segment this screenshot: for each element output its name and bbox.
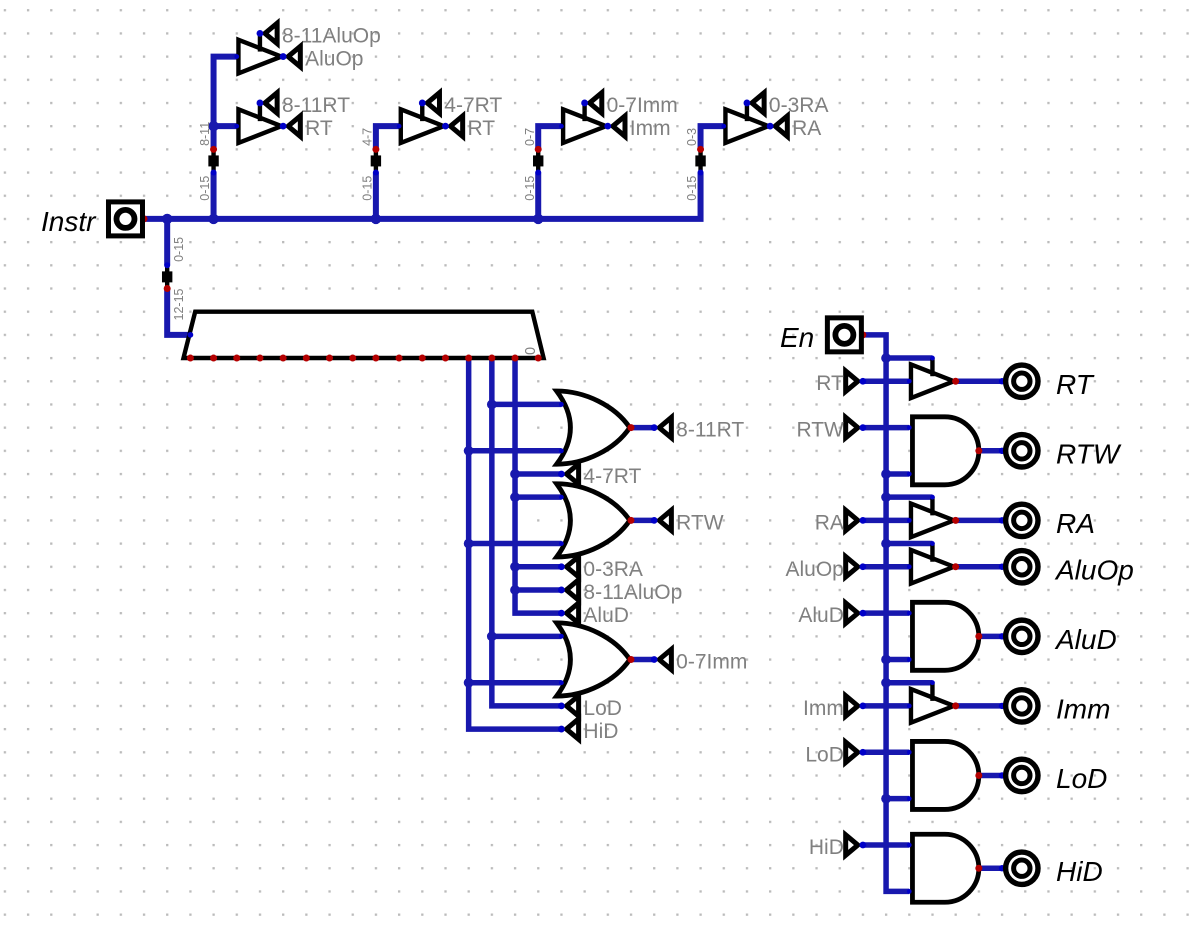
pin dot	[999, 378, 1005, 384]
output pin RTW	[1006, 435, 1038, 467]
output pin AluOp	[1006, 551, 1038, 583]
svg-text:LoD: LoD	[805, 743, 844, 766]
pin dot	[907, 564, 912, 569]
red dot Instr pin out	[140, 215, 147, 222]
driver U4 (AluOp)	[911, 544, 954, 584]
wire tunnel AluOp to U4	[863, 564, 909, 570]
junction out1/8-11AluOp	[510, 585, 520, 595]
pin dot	[559, 634, 564, 639]
splitter S4	[695, 149, 705, 172]
driver U1 (RT)	[911, 358, 954, 398]
red dot OR2 out	[627, 517, 634, 524]
wire En to U3 enable	[886, 494, 932, 500]
splitter pin dot	[164, 262, 170, 268]
tunnel 0-7Imm (OR3 out)	[659, 649, 671, 669]
junction En rail/U2	[881, 469, 891, 479]
wire 8-11 splitter to drivers	[214, 57, 237, 150]
wire OR2 output	[631, 518, 654, 524]
splitter pin dot	[698, 170, 704, 176]
red dot decoder output 14	[210, 355, 217, 362]
red dot OR3 out	[627, 656, 634, 663]
red dot U4 out	[952, 563, 959, 570]
tunnel AluOp (net load)	[846, 557, 858, 577]
driver D2 (RT 8-11)	[238, 103, 281, 143]
svg-text:HiD: HiD	[809, 836, 844, 859]
svg-text:AluD: AluD	[583, 604, 629, 627]
tunnel HiD (net source)	[566, 719, 578, 739]
svg-text:AluOp: AluOp	[1054, 554, 1134, 585]
driver D4 (Imm)	[563, 103, 606, 143]
tunnel pin dot	[257, 100, 264, 107]
junction En rail/U4 en	[881, 539, 891, 549]
wire OR1 input B	[469, 448, 562, 454]
svg-text:Imm: Imm	[630, 117, 671, 140]
junction En rail/U3 en	[881, 492, 891, 502]
red dot S2 out	[372, 146, 379, 153]
tunnel AluD (net load)	[846, 603, 858, 623]
svg-text:8-11AluOp: 8-11AluOp	[583, 581, 682, 604]
red dot U8 out	[975, 865, 982, 872]
svg-text:0-15: 0-15	[198, 176, 212, 201]
red dot U2 out	[975, 447, 982, 454]
svg-text:Imm: Imm	[803, 697, 844, 720]
red dot decoder output 9	[326, 355, 333, 362]
tunnel LoD (net load)	[846, 742, 858, 762]
wire 0-3 splitter to driver	[701, 126, 724, 149]
svg-text:0: 0	[523, 347, 539, 355]
tunnel pin dot	[581, 100, 588, 107]
wire U5 to pin AluD	[979, 634, 1002, 640]
wire decoder out1 column	[515, 358, 561, 613]
tunnel 8-11RT (D2 enable)	[265, 93, 277, 113]
svg-text:AluOp: AluOp	[786, 558, 844, 581]
wire Instr bus	[144, 173, 701, 219]
svg-text:RTW: RTW	[796, 419, 844, 442]
tunnel LoD (net source)	[566, 696, 578, 716]
splitter pin dot	[535, 170, 541, 176]
tunnel pin dot	[558, 726, 565, 733]
svg-text:LoD: LoD	[583, 697, 622, 720]
wire U1 to pin RT	[956, 378, 1002, 384]
tunnel pin dot	[558, 610, 565, 617]
wire to tunnel 4-7RT	[515, 471, 561, 477]
svg-text:AluD: AluD	[1054, 624, 1117, 655]
wire 4-7 splitter to driver	[376, 126, 399, 149]
tunnel 8-11AluOp (D1 enable)	[265, 23, 277, 43]
wire OR3 input A	[492, 634, 562, 640]
svg-text:Instr: Instr	[41, 206, 97, 237]
tunnel 0-3RA (D5 enable)	[752, 93, 764, 113]
svg-text:0-15: 0-15	[172, 237, 186, 262]
red dot En pin out	[859, 331, 866, 338]
tunnel pin dot	[859, 517, 866, 524]
and-gate U5 (AluD)	[912, 602, 978, 670]
tunnel pin dot	[651, 424, 658, 431]
red dot decoder output 13	[233, 355, 240, 362]
red dot U6 out	[952, 702, 959, 709]
wire En to U4 enable	[886, 541, 932, 547]
wire bus riser col 8-11	[211, 173, 217, 219]
tunnel 4-7RT (D3 enable)	[427, 93, 439, 113]
pin dot	[721, 124, 726, 129]
wire U3 to pin RA	[956, 518, 1002, 524]
red dot U7 out	[975, 772, 982, 779]
pin dot	[907, 843, 912, 848]
svg-text:AluOp: AluOp	[305, 48, 363, 71]
decoder select pin dot	[187, 332, 193, 338]
red dot S4 out	[697, 146, 704, 153]
junction out3/OR2	[464, 539, 474, 549]
junction En rail/U7	[881, 794, 891, 804]
wire OR1 input A	[492, 402, 562, 408]
pin dot	[907, 472, 912, 477]
splitter S2	[371, 149, 381, 172]
pin dot	[930, 356, 935, 361]
pin dot	[234, 54, 239, 59]
tunnel RTW (net load)	[846, 417, 858, 437]
driver D3 (RT 4-7)	[401, 103, 444, 143]
junction out3/OR1	[464, 446, 474, 456]
tunnel pin dot	[280, 123, 287, 130]
or-gate OR3	[557, 623, 630, 696]
wire tunnel RA to U3	[863, 518, 909, 524]
wire 12-15 splitter to decoder select	[167, 288, 190, 334]
svg-text:RT: RT	[305, 117, 333, 140]
junction En rail/U5	[881, 655, 891, 665]
pin dot	[999, 865, 1005, 871]
red dot decoder output 7	[372, 355, 379, 362]
wire bus riser col 0-7	[535, 173, 541, 219]
tunnel pin dot	[419, 100, 426, 107]
output pin LoD	[1006, 759, 1038, 791]
splitter S3	[533, 149, 543, 172]
driver U3 (RA)	[911, 497, 954, 537]
wire En to U5 lower input	[886, 657, 909, 663]
wire bus riser col 4-7	[373, 173, 379, 219]
pin dot	[907, 425, 912, 430]
splitter S1	[208, 149, 218, 172]
pin dot	[559, 448, 564, 453]
pin dot	[930, 680, 935, 685]
pin dot	[930, 541, 935, 546]
red dot U3 out	[952, 517, 959, 524]
and-gate U2 (RTW)	[912, 417, 978, 485]
svg-text:0-7Imm: 0-7Imm	[607, 94, 678, 117]
tunnel pin dot	[558, 471, 565, 478]
svg-text:4-7: 4-7	[360, 128, 374, 146]
splitter S5	[162, 265, 172, 288]
pin dot	[907, 379, 912, 384]
wire OR3 output	[631, 657, 654, 663]
tunnel pin dot	[651, 656, 658, 663]
pin dot	[907, 657, 912, 662]
junction out1/4-7RT	[510, 469, 520, 479]
red dot decoder output 6	[396, 355, 403, 362]
red dot U5 out	[975, 633, 982, 640]
tunnel pin dot	[859, 749, 866, 756]
junction bus/col 8-11	[208, 214, 218, 224]
wire En to U7 lower input	[886, 796, 909, 802]
junction out2/OR1	[487, 400, 497, 410]
wire tunnel RT to U1	[863, 378, 909, 384]
tunnel AluOp (D1 out)	[288, 46, 300, 66]
wire OR2 input A	[515, 494, 561, 500]
red dot decoder output 15	[187, 355, 194, 362]
input pin En	[827, 318, 861, 352]
splitter pin dot	[211, 170, 217, 176]
red dot OR1 out	[627, 424, 634, 431]
junction En rail/U6 en	[881, 678, 891, 688]
driver D1 (AluOp)	[238, 33, 281, 73]
and-gate U8 (HiD)	[912, 834, 978, 902]
pin dot	[559, 124, 564, 129]
wire OR1 output	[631, 425, 654, 431]
wire OR2 input B	[469, 541, 562, 547]
wire tunnel AluD to U5	[863, 610, 909, 616]
junction out1/OR2	[510, 492, 520, 502]
tunnel pin dot	[651, 517, 658, 524]
wire OR3 input B	[469, 680, 562, 686]
svg-text:RT: RT	[467, 117, 495, 140]
svg-text:8-11RT: 8-11RT	[282, 94, 350, 117]
pin dot	[907, 796, 912, 801]
wire En to U2 lower input	[886, 471, 909, 477]
svg-text:0-15: 0-15	[360, 176, 374, 201]
tunnel pin dot	[558, 563, 565, 570]
pin dot	[930, 495, 935, 500]
tunnel RTW (OR2 out)	[659, 510, 671, 530]
svg-text:HiD: HiD	[583, 720, 618, 743]
svg-text:4-7RT: 4-7RT	[444, 94, 502, 117]
tunnel pin dot	[442, 123, 449, 130]
red dot decoder output 12	[256, 355, 263, 362]
wire U2 to pin RTW	[979, 448, 1002, 454]
svg-text:RA: RA	[792, 117, 821, 140]
tunnel 8-11AluOp (net source)	[566, 580, 578, 600]
pin dot	[234, 124, 239, 129]
red dot decoder output 10	[303, 355, 310, 362]
pin dot	[999, 703, 1005, 709]
output pin RT	[1006, 365, 1038, 397]
pin dot	[907, 611, 912, 616]
svg-text:RA: RA	[1056, 508, 1095, 539]
red dot decoder output 8	[349, 355, 356, 362]
tunnel HiD (net load)	[846, 835, 858, 855]
red dot decoder output 11	[280, 355, 287, 362]
wire tunnel LoD to U7	[863, 750, 909, 756]
decoder DEC1	[184, 312, 544, 358]
output pin HiD	[1006, 852, 1038, 884]
tunnel pin dot	[558, 587, 565, 594]
pin dot	[559, 541, 564, 546]
svg-text:0-7Imm: 0-7Imm	[676, 651, 747, 674]
svg-text:Imm: Imm	[1056, 693, 1110, 724]
svg-text:LoD: LoD	[1056, 763, 1107, 794]
junction bus/col 0-7	[533, 214, 543, 224]
or-gate OR1	[557, 391, 630, 464]
tunnel Imm (D4 out)	[613, 116, 625, 136]
svg-text:0-15: 0-15	[523, 176, 537, 201]
junction En rail/U1 en	[881, 353, 891, 363]
input pin Instr	[108, 202, 142, 236]
output pin Imm	[1006, 690, 1038, 722]
and-gate U7 (LoD)	[912, 741, 978, 809]
wire U8 to pin HiD	[979, 865, 1002, 871]
output pin RA	[1006, 504, 1038, 536]
or-gate OR2	[557, 484, 630, 557]
junction col 8-11 branch	[208, 121, 218, 131]
junction out1/0-3RA	[510, 562, 520, 572]
junction bus/decoder drop	[162, 214, 172, 224]
red dot S5 out	[164, 285, 171, 292]
wire branch to RT driver	[214, 123, 237, 129]
tunnel pin dot	[859, 610, 866, 617]
pin dot	[999, 633, 1005, 639]
pin dot	[999, 564, 1005, 570]
svg-text:RT: RT	[1056, 369, 1095, 400]
svg-text:12-15: 12-15	[172, 288, 186, 320]
pin dot	[559, 402, 564, 407]
pin dot	[907, 518, 912, 523]
junction out3/OR3	[464, 678, 474, 688]
svg-text:0-7: 0-7	[523, 128, 537, 146]
svg-text:0-15: 0-15	[685, 176, 699, 201]
red dot decoder output 1	[512, 355, 519, 362]
tunnel AluD (net source)	[566, 603, 578, 623]
red dot decoder output 4	[442, 355, 449, 362]
svg-text:HiD: HiD	[1056, 856, 1103, 887]
pin dot	[907, 703, 912, 708]
wire tunnel RTW to U2	[863, 425, 909, 431]
wire decoder out3 column	[469, 358, 562, 729]
wire En to U6 enable	[886, 680, 932, 686]
pin dot	[999, 448, 1005, 454]
wire U7 to pin LoD	[979, 773, 1002, 779]
junction out2/OR3	[487, 631, 497, 641]
tunnel pin dot	[257, 30, 264, 37]
tunnel pin dot	[558, 702, 565, 709]
tunnel pin dot	[859, 424, 866, 431]
wire 0-7 splitter to driver	[538, 126, 561, 149]
pin dot	[999, 517, 1005, 523]
tunnel pin dot	[604, 123, 611, 130]
tunnel RA (D5 out)	[775, 116, 787, 136]
tunnel 4-7RT (net source)	[566, 464, 578, 484]
wire bus drop to 12-15 splitter	[164, 219, 170, 265]
tunnel pin dot	[859, 702, 866, 709]
tunnel 8-11RT (OR1 out)	[659, 417, 671, 437]
svg-text:0-3RA: 0-3RA	[769, 94, 829, 117]
wire decoder out2 column	[492, 358, 562, 706]
tunnel pin dot	[280, 53, 287, 60]
tunnel pin dot	[859, 563, 866, 570]
pin dot	[397, 124, 402, 129]
svg-text:RTW: RTW	[676, 511, 724, 534]
svg-text:0-3RA: 0-3RA	[583, 558, 643, 581]
tunnel 0-7Imm (D4 enable)	[590, 93, 602, 113]
pin dot	[907, 750, 912, 755]
output pin AluD	[1006, 620, 1038, 652]
svg-text:0-3: 0-3	[685, 128, 699, 146]
wire tunnel HiD to U8	[863, 842, 909, 848]
svg-text:RT: RT	[816, 372, 844, 395]
tunnel RA (net load)	[846, 510, 858, 530]
red dot decoder output 0	[535, 355, 542, 362]
tunnel 0-3RA (net source)	[566, 557, 578, 577]
tunnel pin dot	[744, 100, 751, 107]
wire En rail	[863, 335, 909, 892]
tunnel Imm (net load)	[846, 696, 858, 716]
red dot S3 out	[535, 146, 542, 153]
tunnel RT (D2 out)	[288, 116, 300, 136]
svg-text:8-11RT: 8-11RT	[676, 419, 744, 442]
wire U4 to pin AluOp	[956, 564, 1002, 570]
splitter pin dot	[373, 170, 379, 176]
svg-text:8-11AluOp: 8-11AluOp	[282, 24, 381, 47]
pin dot	[559, 680, 564, 685]
wire to tunnel 8-11AluOp	[515, 587, 561, 593]
tunnel RT (D3 out)	[450, 116, 462, 136]
red dot decoder output 5	[419, 355, 426, 362]
pin dot	[907, 889, 912, 894]
svg-text:4-7RT: 4-7RT	[583, 465, 641, 488]
svg-text:RTW: RTW	[1056, 438, 1122, 469]
wire to tunnel 0-3RA	[515, 564, 561, 570]
red dot decoder output 3	[465, 355, 472, 362]
tunnel pin dot	[859, 842, 866, 849]
driver U6 (Imm)	[911, 683, 954, 723]
svg-text:8-11: 8-11	[198, 122, 212, 146]
junction bus/col 4-7	[371, 214, 381, 224]
svg-text:RA: RA	[815, 511, 844, 534]
svg-text:En: En	[780, 322, 814, 353]
wire U6 to pin Imm	[956, 703, 1002, 709]
wire En to U1 enable	[886, 355, 932, 361]
svg-text:AluD: AluD	[798, 604, 844, 627]
tunnel pin dot	[767, 123, 774, 130]
tunnel pin dot	[859, 378, 866, 385]
wire tunnel Imm to U6	[863, 703, 909, 709]
red dot S1 out	[210, 146, 217, 153]
red dot decoder output 2	[488, 355, 495, 362]
red dot U1 out	[952, 378, 959, 385]
pin dot	[559, 495, 564, 500]
driver D5 (RA)	[725, 103, 768, 143]
pin dot	[999, 772, 1005, 778]
tunnel RT (net load)	[846, 371, 858, 391]
